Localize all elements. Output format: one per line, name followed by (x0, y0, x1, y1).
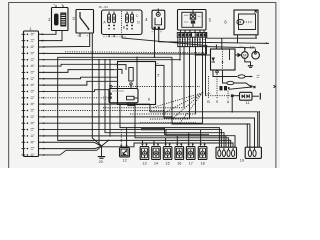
wire p15 (39, 122, 203, 124)
fuse link row 1 (213, 70, 237, 77)
wires p18-p20 to ground fan (39, 142, 102, 146)
wire p16 to conn19 (39, 130, 222, 148)
resistor unit 8 (109, 89, 138, 103)
wire p10 staircase to unit8 (39, 90, 110, 92)
trunk x150 to right lamp box (150, 104, 258, 145)
dotted parallel run (65, 52, 205, 53)
terminal dashes B 9 A (208, 76, 210, 99)
distributor box B (211, 49, 236, 70)
corner trunk x57.7 (58, 57, 231, 147)
diode box 12 (120, 130, 122, 147)
ground under motor (245, 58, 251, 65)
wire p11 dashed to unit8 (39, 97, 109, 99)
switch 3 (76, 10, 94, 34)
trunk x160 to right lamp box (156, 65, 255, 150)
wire p4 (39, 52, 207, 55)
component 6 (234, 10, 258, 35)
trunk x110 (109, 60, 111, 136)
wire p6 staircase to unit7 pin1 (39, 64, 118, 66)
wire p5 (39, 59, 181, 61)
diagonal wire from fusebox to node (122, 35, 207, 55)
switch 3 third pin trunk (92, 33, 101, 146)
wire p8 staircase to unit7 pin3 (39, 77, 118, 79)
trunk x170 to right lamp box (172, 57, 250, 150)
dotted middle runs (103, 107, 184, 109)
bus under relay (177, 46, 206, 48)
contact A block (220, 86, 223, 90)
trunk x135 box7 to conn19 (135, 105, 229, 148)
wire p14 (39, 116, 173, 118)
slant fan at 202 (152, 93, 203, 108)
arrowheads on remaining pin rows (42, 59, 44, 61)
relay strip short drops to bus (177, 37, 179, 46)
feeds into distributor box top (215, 45, 217, 50)
ground point 20 (101, 146, 103, 156)
coil 2 bottom pin wires to connector (41, 31, 56, 35)
stub pin right lamp box (246, 124, 248, 147)
relay pin long drops (179, 47, 181, 60)
pump circle (252, 51, 260, 59)
bus extension to motor (207, 47, 256, 48)
wire p9 staircase to unit7 pin4 (39, 81, 118, 85)
wire p3 up into switch 3 pin a (39, 33, 90, 47)
comp4 pin drops joining dm lines (154, 31, 156, 57)
dashed 10a line and diode pack 11 (206, 95, 231, 97)
wire from trunk line into unit 8 (136, 57, 138, 88)
connector 19 (216, 147, 237, 158)
relay 5 pin stubs (180, 30, 182, 33)
sensor 4 (152, 10, 165, 29)
tiny pin labels under relay strip (179, 39, 181, 41)
fuse link row 2 (223, 70, 227, 83)
switch 3 pin b stub (79, 33, 81, 37)
connector 19b (245, 147, 261, 158)
wire p12 (39, 103, 151, 105)
connector 1 (24, 31, 39, 157)
lamp units 13-18 (140, 147, 149, 160)
relay 5 pin strip (177, 33, 207, 38)
wire p17 to conn19 (39, 136, 227, 147)
connector 1 pins (22, 33, 26, 35)
wire p7 staircase to unit7 pin2 (39, 70, 118, 73)
19b extra pin stubs (257, 145, 259, 147)
ignition coil 2 (52, 8, 69, 31)
stepped heavy line above lamp row (141, 128, 209, 134)
trunk x99 down to ground fan (99, 60, 102, 147)
junction dots (98, 59, 100, 61)
frame border (9, 3, 276, 168)
fusebox bottom pin drops (108, 35, 110, 38)
trunk x120 box7 to conn19 (120, 105, 219, 148)
control unit 7 (118, 62, 156, 105)
wire p13 dotted (39, 110, 165, 112)
trunk x105 to conn19 (105, 60, 224, 148)
relay 5 (178, 10, 207, 31)
fan jog to feed row (102, 143, 234, 147)
fuse box 5a (102, 10, 143, 35)
extra fan feed (102, 140, 109, 145)
